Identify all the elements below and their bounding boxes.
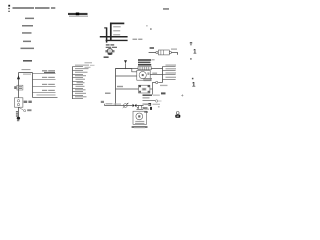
- strap name label: [133, 39, 143, 40]
- pump caption: [132, 126, 148, 128]
- center bus stub 4: [73, 77, 84, 79]
- bottom stub label: [37, 94, 56, 95]
- pump motor circle: [136, 113, 143, 120]
- center bus stub 1: [73, 66, 84, 68]
- bus bottom corner: [158, 82, 162, 84]
- center bus stub 9: [73, 95, 84, 97]
- edge dot: [190, 58, 191, 59]
- stub 4 label: [75, 75, 86, 76]
- stub 10 label: [75, 96, 87, 97]
- center bus stub 6: [73, 84, 84, 86]
- stub 4 label: [42, 90, 55, 91]
- center bus stub 8: [73, 91, 84, 93]
- pump icon V5: [105, 48, 114, 55]
- plus mark: [181, 94, 183, 96]
- r stub 2 label: [166, 68, 177, 69]
- switch label: [27, 109, 31, 111]
- ground strap tick: [104, 27, 106, 29]
- ground strap bar bottom: [106, 39, 128, 41]
- edge dot lower: [192, 78, 194, 80]
- junction: [125, 68, 126, 69]
- center bus stub 7: [73, 88, 84, 90]
- note header text line: [13, 7, 56, 9]
- r stub 4 label: [166, 77, 177, 78]
- right bus stub 2: [163, 70, 176, 72]
- wire side ticks: [16, 111, 18, 116]
- relay out wire: [150, 74, 162, 76]
- note margin glyphs: [8, 5, 10, 12]
- inline label T: [14, 86, 16, 89]
- inline connector box: [17, 85, 23, 90]
- relay box: [137, 70, 150, 80]
- stub 7 label: [76, 86, 85, 87]
- left bus stub 2: [33, 79, 56, 81]
- strap label row 2: [113, 30, 120, 31]
- inline connector circle: [156, 81, 158, 83]
- arrow down 30: [124, 60, 127, 63]
- junction cluster labels: [143, 94, 160, 98]
- fuse wire right: [171, 53, 177, 55]
- switch contact: [24, 110, 26, 112]
- note list line 6: [23, 60, 32, 62]
- relay feed upper pin: [116, 69, 137, 72]
- bottom wire labels: [106, 103, 122, 104]
- wire to switch: [153, 83, 156, 95]
- ground strap vertical 2: [110, 23, 112, 41]
- page ref text top right: [163, 8, 169, 10]
- pump pin 2: [140, 106, 142, 109]
- pump V5 label: [106, 44, 114, 45]
- switch lever: [19, 107, 24, 110]
- center bus stub 3: [73, 74, 84, 76]
- sender labels: [24, 101, 32, 103]
- stub 8 label: [75, 89, 86, 90]
- left bus stub 1: [33, 73, 56, 75]
- wire to pump pins: [136, 105, 143, 107]
- cluster text row: [143, 103, 161, 106]
- wire label: [117, 86, 123, 87]
- stub labels top extra: [75, 62, 95, 66]
- continue arrow icon: [175, 112, 180, 118]
- strap label row 1: [113, 26, 121, 27]
- ground strap thick bar top: [110, 22, 124, 24]
- ground strap vertical 1: [106, 27, 108, 42]
- fuse S label: [150, 47, 154, 49]
- pressure switch F: [139, 85, 150, 93]
- svg-text:1: 1: [192, 81, 196, 88]
- pin labels: [137, 104, 150, 109]
- r stub 3 label: [166, 72, 177, 73]
- connection circle symbol: [123, 103, 129, 108]
- top bar label: [145, 109, 149, 110]
- center bus vertical: [72, 67, 74, 100]
- fuse terminal left: [156, 51, 158, 53]
- left bus stub 4: [33, 92, 56, 94]
- pump box top bar: [136, 109, 143, 111]
- title bold: [68, 13, 88, 16]
- stub 3 label: [42, 84, 55, 85]
- stub 1 label: [42, 70, 55, 73]
- faint mark right: [150, 28, 152, 30]
- note list line 2: [22, 25, 33, 27]
- right bus stub 4: [163, 79, 176, 81]
- center bus stub 5: [73, 81, 84, 83]
- ground strap bar mid: [100, 36, 128, 38]
- subtitle: [69, 16, 88, 17]
- left bus bottom stub: [33, 97, 58, 99]
- right bus stub 3: [163, 74, 176, 76]
- fuel pump box G6: [133, 111, 147, 124]
- fuse wire left: [149, 52, 156, 54]
- edge marker i: [190, 42, 192, 45]
- stub 2 label: [42, 77, 55, 78]
- strap label row 3: [113, 34, 120, 35]
- switch label rows: [143, 78, 152, 81]
- check valve bowtie: [133, 104, 137, 107]
- cluster marks: [143, 107, 152, 113]
- bus side label: [105, 93, 111, 95]
- pump top bar: [106, 46, 117, 49]
- ground terminal: [17, 117, 20, 121]
- junction wire with terminal: [143, 100, 162, 102]
- wire top left horizontal: [19, 72, 33, 74]
- right bus stub 1: [163, 66, 176, 68]
- wire label above: [22, 69, 32, 75]
- connector strip on wire: [138, 67, 151, 70]
- sender G box: [15, 98, 23, 107]
- wire left vertical: [18, 73, 20, 99]
- arrow stem: [125, 63, 127, 68]
- center bus stub 10: [73, 98, 84, 100]
- stub 6 label: [77, 82, 85, 83]
- r stub 1 label: [166, 65, 177, 66]
- relay feed lower pin: [116, 75, 137, 77]
- faint dot: [146, 25, 147, 26]
- left bus stub 3: [33, 86, 56, 88]
- left bus vertical: [32, 73, 34, 98]
- stub 2 label: [75, 67, 91, 69]
- right labels: [160, 85, 168, 86]
- fuse body: [158, 50, 169, 55]
- wire to ground: [18, 107, 20, 117]
- fuse value label: [171, 49, 177, 50]
- switch feed wire: [116, 88, 139, 90]
- switch out wire: [150, 88, 153, 90]
- fuse terminal right: [169, 51, 171, 53]
- out wire label: [152, 73, 157, 74]
- note list line 5: [21, 48, 35, 50]
- pump sub label: [104, 56, 109, 58]
- note list line 4: [23, 41, 31, 43]
- stub 3 label: [75, 72, 88, 73]
- pump pin 1: [138, 106, 140, 109]
- right bus vertical: [162, 67, 164, 83]
- feed corner wire: [116, 69, 163, 106]
- stub 9 label: [75, 93, 86, 94]
- relay label block J17: [138, 59, 155, 65]
- arrow 30 feed: [17, 75, 20, 79]
- bottom wire: [105, 105, 133, 107]
- note list line 3: [22, 32, 32, 34]
- note list line 1: [25, 18, 34, 20]
- bottom wire label corner: [101, 101, 104, 103]
- bottom wire end tick: [104, 104, 106, 106]
- center bus stub 2: [73, 70, 84, 72]
- stub 5 label: [76, 79, 86, 80]
- pump inner text: [135, 121, 144, 124]
- small mark: [158, 106, 160, 107]
